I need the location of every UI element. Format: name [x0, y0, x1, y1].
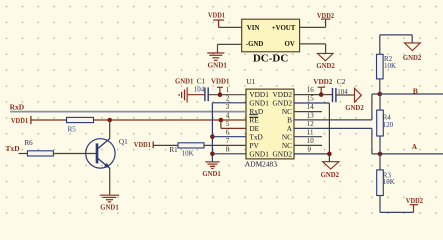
wire ground to C1	[187, 94, 205, 96]
ground GND1 below DC-DC left (earth)	[207, 53, 224, 60]
svg-text:10K: 10K	[182, 150, 194, 158]
junction pin 9	[327, 152, 332, 157]
svg-text:120: 120	[383, 121, 394, 129]
power port VDD1 mid	[152, 141, 154, 148]
resistor R4	[377, 110, 384, 136]
junction collector	[107, 118, 112, 123]
svg-text:RxD: RxD	[10, 102, 25, 111]
power port VDD1 right of C1	[217, 87, 223, 94]
IC pin names left column	[249, 90, 269, 158]
power port VDD1 left	[30, 116, 32, 124]
wire net B	[372, 93, 443, 95]
svg-text:VIN: VIN	[247, 25, 260, 32]
svg-text:R6: R6	[25, 139, 34, 147]
resistor R5	[67, 117, 94, 122]
wire R2 top to GND2	[380, 35, 412, 54]
transistor Q1	[86, 139, 115, 169]
svg-text:1: 1	[226, 86, 230, 94]
wire R4 bottom	[379, 136, 381, 154]
svg-text:VDD1: VDD1	[11, 116, 28, 125]
power port VDD1 top	[213, 20, 224, 27]
wire C1 to pin 1	[208, 94, 246, 96]
junction R4 bottom on net A	[378, 152, 383, 157]
svg-text:A: A	[412, 142, 418, 151]
svg-text:8: 8	[226, 145, 230, 153]
svg-text:+VOUT: +VOUT	[272, 25, 296, 32]
svg-text:13: 13	[307, 111, 315, 119]
svg-text:DC-DC: DC-DC	[253, 52, 288, 64]
svg-text:-GND: -GND	[246, 41, 264, 48]
IC U1 ADM2483 body	[246, 89, 294, 159]
svg-text:VDD2: VDD2	[313, 77, 332, 86]
DC-DC module box	[242, 19, 300, 52]
svg-text:GND2: GND2	[321, 170, 340, 179]
svg-text:VDD2: VDD2	[317, 11, 334, 20]
svg-text:GND1: GND1	[208, 60, 228, 69]
svg-text:2: 2	[226, 94, 230, 102]
svg-text:TxD: TxD	[6, 144, 21, 153]
svg-text:104: 104	[194, 86, 205, 94]
junction pin 8	[210, 152, 215, 157]
ground GND1 left of C1 (sideways earth)	[179, 87, 187, 102]
svg-text:GND1: GND1	[100, 203, 119, 212]
wire pin 8	[212, 153, 246, 155]
svg-text:U1: U1	[246, 77, 255, 86]
resistor R2	[377, 54, 384, 79]
resistor R1	[178, 143, 204, 148]
power port VDD2 bottom	[410, 205, 418, 213]
junction pin5 branch	[219, 118, 224, 123]
ground GND2 below IC (triangle)	[323, 162, 339, 169]
power port VDD2 top	[321, 19, 331, 27]
svg-text:14: 14	[307, 103, 315, 111]
wire pin 14 NC stub	[294, 111, 322, 113]
wire pin 11 NC stub	[294, 136, 322, 138]
svg-text:11: 11	[307, 128, 314, 136]
wire pin 13 to net B	[294, 94, 372, 120]
capacitor C1	[205, 87, 208, 101]
svg-text:10K: 10K	[383, 178, 395, 186]
ground GND1 below IC (earth)	[205, 162, 219, 169]
svg-text:3: 3	[226, 103, 230, 111]
svg-text:GND2: GND2	[273, 149, 293, 158]
wire R3 bottom to VDD2	[380, 196, 414, 213]
wire OV to GND2	[300, 44, 326, 54]
wire branch to pin 5	[221, 120, 246, 128]
svg-text:ADM2483: ADM2483	[245, 159, 277, 168]
svg-text:VDD1: VDD1	[211, 77, 230, 86]
wire pin 9	[294, 153, 329, 155]
svg-text:GND1: GND1	[249, 149, 269, 158]
svg-text:GND2: GND2	[316, 61, 335, 70]
wire net A	[372, 153, 443, 155]
pin numbers right 16-9	[307, 86, 315, 153]
junction VDD2/pin16	[319, 92, 324, 97]
svg-text:12: 12	[307, 120, 315, 128]
wire pin 16 to VDD2	[294, 94, 321, 96]
svg-text:GND1: GND1	[175, 77, 194, 86]
wire R1 to pin 7	[204, 144, 246, 146]
svg-text:GND1: GND1	[202, 169, 221, 178]
svg-text:Q1: Q1	[119, 137, 128, 146]
svg-text:10: 10	[307, 137, 315, 145]
svg-text:4: 4	[226, 111, 230, 119]
wire net RxD to pin 3	[10, 111, 246, 113]
wire pin 10 NC stub	[294, 144, 322, 146]
junction VDD1/pin1	[218, 92, 223, 97]
wire C2 to GND2	[336, 94, 355, 96]
wire VDD1 to DC-DC VIN	[219, 26, 242, 28]
svg-text:5: 5	[226, 120, 230, 128]
wire +VOUT to VDD2	[300, 26, 326, 28]
ground GND1 below Q1 (earth)	[100, 195, 120, 202]
svg-text:R5: R5	[68, 125, 77, 133]
junction pin 6	[210, 134, 215, 139]
ground GND2 right of C2 (sideways triangle)	[355, 88, 362, 102]
wire pin 15 to GND2 vertical	[294, 103, 329, 162]
svg-text:9: 9	[308, 145, 312, 153]
wire TxD to R6	[19, 153, 28, 155]
ground GND2 below DC-DC right (triangle)	[317, 53, 333, 60]
svg-text:C1: C1	[197, 77, 206, 86]
wire DC-DC GND to ground	[218, 44, 242, 53]
svg-text:VDD1: VDD1	[134, 140, 152, 149]
wire R3 top	[379, 154, 381, 170]
svg-text:B: B	[413, 87, 418, 96]
wire pin 12 to net A	[294, 128, 372, 154]
wire R4 top	[379, 94, 381, 110]
wire collector	[109, 120, 111, 139]
svg-text:7: 7	[226, 137, 230, 145]
wire R6 to base	[53, 153, 95, 155]
overline of RE	[249, 116, 258, 118]
svg-text:C2: C2	[337, 77, 346, 86]
wire R5 to pin 4	[94, 119, 247, 121]
svg-text:OV: OV	[285, 41, 295, 48]
wire VDD1 to R1	[153, 144, 178, 146]
svg-text:R1: R1	[170, 146, 179, 154]
wire pin 2 to GND1 vertical	[212, 103, 246, 162]
junction R2 bottom on net B	[378, 92, 383, 97]
svg-text:15: 15	[307, 94, 315, 102]
svg-text:10K: 10K	[384, 62, 396, 70]
wire pin 6	[212, 136, 246, 138]
svg-text:GND2: GND2	[403, 53, 422, 62]
capacitor C2	[333, 88, 336, 102]
wire VDD2 to C2	[321, 94, 332, 96]
underline of RxD pin name	[249, 114, 257, 116]
wire R2 bottom	[379, 79, 381, 94]
ground GND2 top right (triangle)	[405, 43, 421, 51]
resistor R6	[27, 151, 53, 156]
pin numbers left 1-8	[226, 86, 230, 153]
wire emitter to ground	[109, 168, 111, 195]
wire VDD1 to R5	[31, 119, 67, 121]
IC pin names right column	[273, 90, 293, 158]
svg-text:6: 6	[226, 128, 230, 136]
svg-text:16: 16	[307, 86, 315, 94]
svg-text:GND2: GND2	[345, 103, 364, 112]
svg-text:VDD2: VDD2	[406, 196, 423, 205]
svg-text:VDD1: VDD1	[208, 11, 225, 20]
power port VDD2 left of C2	[318, 87, 326, 94]
resistor R3	[377, 170, 384, 196]
